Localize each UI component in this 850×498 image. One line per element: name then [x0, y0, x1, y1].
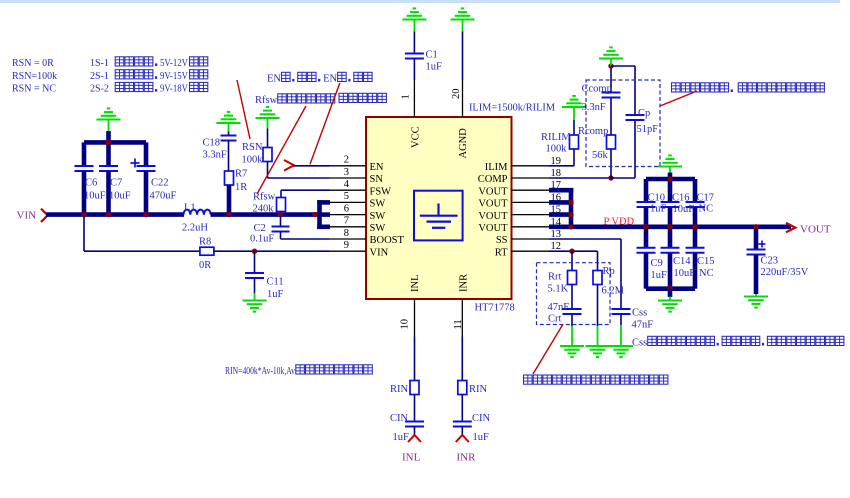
svg-text:C17: C17	[697, 193, 715, 204]
IC U1 left pin names	[370, 162, 405, 258]
svg-text:47nF: 47nF	[632, 320, 654, 331]
svg-text:6: 6	[344, 203, 349, 214]
pin 20 stub	[462, 80, 464, 117]
label RILIM value	[546, 144, 568, 155]
svg-text:Cp: Cp	[638, 108, 650, 119]
capacitor C9	[637, 229, 656, 289]
svg-text:1uF: 1uF	[393, 432, 410, 443]
svg-text:INL: INL	[410, 275, 421, 293]
IC U1 left pin stubs	[329, 166, 366, 251]
svg-text:5: 5	[344, 191, 349, 202]
wire RIN to CIN INR	[461, 395, 463, 422]
ground C23	[744, 294, 768, 308]
svg-text:VIN: VIN	[370, 247, 389, 258]
svg-text:RT: RT	[495, 247, 508, 258]
wire RIN to CIN INL	[414, 395, 416, 422]
svg-text:NC: NC	[699, 204, 714, 215]
resistor R7	[225, 171, 234, 185]
svg-text:0.1uF: 0.1uF	[250, 234, 274, 245]
wire COMP	[549, 177, 611, 179]
callout line comp	[660, 91, 697, 106]
ground C18	[217, 112, 241, 132]
port VOUT label	[800, 224, 831, 236]
wire VIN branch down	[83, 216, 85, 251]
svg-text:RSN: RSN	[242, 142, 263, 153]
annotation release time	[524, 375, 668, 384]
label Rrt value	[548, 284, 569, 295]
svg-text:ILIM=1500k/RILIM: ILIM=1500k/RILIM	[469, 103, 556, 114]
svg-text:7: 7	[344, 216, 349, 227]
wire Rrt to Crt	[571, 285, 573, 310]
annotation RSN=100k	[12, 71, 57, 82]
pin 11 stub	[461, 299, 463, 337]
label R7 value	[235, 182, 247, 193]
junction dots VOUT bus	[568, 200, 573, 230]
svg-text:C22: C22	[151, 178, 169, 189]
svg-text:C18: C18	[203, 138, 221, 149]
svg-text:VCC: VCC	[411, 126, 422, 148]
svg-text:1S-1: 1S-1	[90, 58, 109, 69]
label C17 value	[699, 204, 714, 215]
annotation 2S-2 row	[90, 82, 208, 94]
wire cap bank top bus	[84, 140, 146, 145]
capacitor Css	[612, 309, 631, 314]
label Css	[632, 308, 647, 319]
IC U1 thermal pad box	[414, 191, 463, 241]
svg-text:NC: NC	[699, 268, 714, 279]
ground Ccomp	[599, 47, 623, 66]
svg-text:Rrt: Rrt	[548, 272, 562, 283]
svg-text:3: 3	[344, 167, 349, 178]
annotation comp stability	[672, 83, 825, 92]
svg-text:3.3nF: 3.3nF	[203, 150, 227, 161]
svg-text:10uF: 10uF	[109, 191, 131, 202]
label CIN INL	[390, 413, 409, 424]
svg-text:C9: C9	[651, 258, 663, 269]
IC U1 designator HT71778	[475, 303, 515, 314]
label Rcomp	[578, 126, 608, 137]
IC U1 right pin stubs	[512, 166, 550, 251]
label Cp	[638, 108, 650, 119]
svg-text:2S-2: 2S-2	[90, 84, 109, 95]
svg-text:SW: SW	[370, 223, 386, 234]
label Ccomp value	[582, 102, 606, 113]
svg-text:10: 10	[400, 319, 411, 330]
sheet border top line	[0, 0, 840, 3]
capacitor Ccomp	[602, 66, 621, 135]
wire R8 to pin 9	[214, 250, 329, 252]
svg-text:240k: 240k	[253, 204, 275, 215]
svg-text:FSW: FSW	[370, 186, 392, 197]
capacitor C15	[686, 229, 705, 289]
wire Rp bottom	[597, 285, 599, 327]
svg-text:C15: C15	[697, 256, 715, 267]
pin number 20	[451, 89, 462, 100]
label C1	[426, 50, 438, 61]
label Crt value	[548, 302, 570, 313]
label Cp value	[637, 124, 659, 135]
svg-text:VOUT: VOUT	[478, 199, 508, 210]
label Rfsw value	[253, 204, 275, 215]
pin 1 stub	[413, 80, 415, 117]
svg-text:Css: Css	[632, 308, 647, 319]
pin 10 stub	[414, 299, 416, 337]
label CIN value INL	[393, 432, 410, 443]
svg-text:9: 9	[344, 240, 349, 251]
IC U1 left pin numbers 2-9	[344, 155, 350, 251]
label C10 value	[650, 204, 667, 215]
capacitor C22 plus sign	[131, 159, 140, 168]
label C23	[761, 256, 779, 267]
resistor RIN INR	[458, 381, 467, 395]
port VIN label	[17, 210, 37, 222]
svg-text:1uF: 1uF	[650, 204, 667, 215]
svg-text:Rfsw: Rfsw	[255, 95, 278, 106]
port INR label	[457, 452, 477, 464]
resistor RILIM	[570, 135, 579, 149]
svg-text:Rfsw: Rfsw	[253, 192, 276, 203]
svg-text:RSN = 0R: RSN = 0R	[12, 58, 54, 69]
capacitor C11	[245, 251, 264, 293]
ground Rp	[586, 326, 610, 357]
svg-text:VOUT: VOUT	[478, 186, 508, 197]
annotation 2S-1 row	[90, 70, 208, 82]
wire Cp branch	[611, 66, 635, 178]
svg-text:VOUT: VOUT	[800, 224, 831, 236]
capacitor C23	[747, 229, 766, 294]
label RIN INL	[390, 384, 409, 395]
svg-text:4: 4	[344, 179, 350, 190]
svg-text:1: 1	[401, 94, 412, 99]
wire RT	[549, 250, 598, 252]
junction dots rail out caps	[643, 176, 697, 229]
svg-text:VIN: VIN	[17, 210, 37, 222]
IC U1 pin name VCC	[411, 126, 422, 148]
wire SS	[549, 239, 621, 309]
svg-text:100k: 100k	[546, 144, 568, 155]
capacitor C6	[75, 142, 94, 215]
ground C11	[243, 293, 267, 312]
resistor RIN INL	[410, 381, 419, 395]
junction dot C23	[753, 224, 758, 229]
label C18 value	[203, 150, 227, 161]
svg-text:INL: INL	[402, 452, 421, 464]
svg-text:1uF: 1uF	[473, 432, 490, 443]
svg-text:56k: 56k	[592, 150, 609, 161]
label C7 value	[109, 191, 131, 202]
label C9	[651, 258, 663, 269]
svg-text:CIN: CIN	[390, 413, 409, 424]
label C11 value	[267, 289, 284, 300]
label C16	[672, 193, 690, 204]
label Rcomp value	[592, 150, 609, 161]
ground out caps top	[658, 155, 682, 173]
svg-text:INR: INR	[457, 452, 477, 464]
label Rp value	[602, 286, 625, 297]
annotation see datasheet	[339, 93, 386, 102]
ground out caps bottom	[658, 297, 682, 312]
label RILIM	[541, 132, 571, 143]
label C18	[203, 138, 221, 149]
svg-text:Rp: Rp	[603, 266, 615, 277]
wire comp chain bottom	[610, 149, 612, 178]
wire R7 to rail	[227, 185, 232, 215]
svg-text:VOUT: VOUT	[478, 223, 508, 234]
svg-text:2.2uH: 2.2uH	[182, 223, 208, 234]
label C15 value	[699, 268, 714, 279]
label R8 value	[199, 260, 211, 271]
label RSN value	[242, 155, 264, 166]
IC U1 pin name INR	[458, 274, 469, 292]
ground RSN	[256, 107, 280, 129]
net label P VDD	[604, 217, 635, 228]
svg-text:C10: C10	[648, 193, 666, 204]
svg-text:VOUT: VOUT	[478, 211, 508, 222]
pin number 10	[400, 319, 411, 330]
capacitor C22	[137, 142, 156, 215]
label 2.2uH	[182, 223, 208, 234]
svg-text:Css: Css	[632, 338, 647, 349]
wire CIN to port INR	[461, 427, 463, 436]
label C9 value	[651, 270, 668, 281]
svg-text:1uF: 1uF	[651, 270, 668, 281]
junction dots VIN rail caps	[81, 140, 148, 218]
svg-text:EN: EN	[267, 74, 281, 85]
capacitor C18	[221, 132, 237, 172]
capacitor CIN INR	[453, 422, 472, 427]
ground cap bank	[97, 108, 121, 131]
callout line RSN	[237, 80, 250, 139]
svg-text:P VDD: P VDD	[604, 217, 635, 228]
wire out cap bottom bus	[646, 286, 695, 291]
comp network dashed box	[586, 80, 660, 167]
IC U1 right pin names	[478, 162, 508, 258]
wire VIN rail left	[46, 212, 184, 217]
svg-text:2S-1: 2S-1	[90, 71, 109, 82]
svg-text:10uF: 10uF	[674, 268, 696, 279]
label CIN value INR	[473, 432, 490, 443]
label C2 value	[250, 234, 274, 245]
wire Rp top	[597, 251, 599, 270]
svg-text:RIN: RIN	[469, 384, 488, 395]
svg-text:RIN: RIN	[390, 384, 409, 395]
wire EN	[293, 165, 329, 167]
junction dot R7 rail	[226, 212, 231, 217]
label C11	[267, 277, 284, 288]
capacitor C7	[99, 142, 118, 215]
svg-text:1uF: 1uF	[267, 289, 284, 300]
resistor RSN	[263, 148, 272, 162]
capacitor Crt	[563, 309, 582, 314]
port INL arrow	[408, 435, 421, 442]
svg-text:9V-18V: 9V-18V	[160, 84, 189, 95]
label R7	[235, 169, 247, 180]
label C14 value	[674, 268, 696, 279]
svg-text:SW: SW	[370, 211, 386, 222]
label C6 value	[84, 191, 106, 202]
wire SW bus vertical	[317, 200, 322, 229]
resistor Rrt	[568, 271, 577, 285]
svg-text:Crt: Crt	[548, 314, 562, 325]
annotation 1S-1 row	[90, 57, 208, 69]
wire INR input	[461, 337, 463, 381]
ground AGND	[451, 8, 475, 31]
svg-text:EN: EN	[323, 74, 337, 85]
wire RSN top	[267, 129, 269, 148]
op-amp U1 HT71778 IC body	[366, 117, 512, 299]
label C1 value	[426, 62, 443, 73]
svg-text:51pF: 51pF	[637, 124, 659, 135]
label C16 value	[673, 204, 695, 215]
label C22 value	[150, 191, 177, 202]
wire CIN to port INL	[414, 427, 416, 436]
wire INL input	[414, 337, 416, 381]
wire P VDD rail	[549, 225, 791, 230]
callout line EN	[310, 83, 340, 164]
wire cap bank ground stem	[106, 131, 111, 142]
label C17	[697, 193, 715, 204]
svg-text:10uF: 10uF	[673, 204, 695, 215]
junction dot Rfsw rail	[278, 212, 283, 217]
label C2	[254, 223, 266, 234]
label RSN	[242, 142, 263, 153]
wire FSW	[281, 189, 329, 191]
junction dot RT	[569, 249, 574, 254]
annotation RSN=0R	[12, 58, 54, 69]
wire RSN to SN	[268, 162, 330, 179]
junction dot comp top	[608, 63, 613, 68]
svg-text:0R: 0R	[199, 260, 211, 271]
inductor L1	[184, 210, 211, 215]
ground RILIM	[562, 96, 586, 120]
svg-text:EN: EN	[370, 162, 384, 173]
wire BOOST	[281, 238, 330, 240]
label Crt	[548, 314, 562, 325]
wire out cap top bus	[646, 177, 695, 182]
svg-text:C6: C6	[85, 178, 97, 189]
label Css value	[632, 320, 654, 331]
svg-text:C1: C1	[426, 50, 438, 61]
resistor Rfsw	[277, 198, 286, 212]
svg-text:100k: 100k	[242, 155, 264, 166]
svg-text:20: 20	[451, 89, 462, 100]
label C6	[85, 178, 97, 189]
node EN chevron	[284, 160, 294, 171]
pin number 1	[401, 94, 412, 99]
svg-text:INR: INR	[458, 274, 469, 292]
label C23 value	[761, 267, 809, 278]
pin number 11	[453, 319, 464, 329]
svg-text:R7: R7	[235, 169, 247, 180]
wire FSW down	[280, 190, 282, 197]
svg-text:C2: C2	[254, 223, 266, 234]
svg-text:BOOST: BOOST	[370, 235, 405, 246]
svg-text:RILIM: RILIM	[541, 132, 571, 143]
port VOUT arrow	[786, 223, 795, 232]
label Ccomp	[582, 84, 612, 95]
svg-text:5.1K: 5.1K	[548, 284, 569, 295]
port INR arrow	[456, 435, 469, 442]
svg-text:RIN=400k*Av-10k,Av: RIN=400k*Av-10k,Av	[225, 366, 296, 377]
svg-text:5V-12V: 5V-12V	[160, 58, 189, 69]
annotation EN function	[267, 72, 372, 84]
wire Rrt top	[571, 251, 573, 270]
resistor Rp	[593, 271, 602, 285]
wire Rfsw to rail	[280, 212, 282, 216]
wire bottom bus gnd stub	[668, 289, 673, 297]
label C15	[697, 256, 715, 267]
label L1	[184, 203, 196, 214]
svg-text:6.2M: 6.2M	[602, 286, 625, 297]
wire VOUT bus stubs	[549, 190, 573, 214]
resistor R8	[200, 247, 214, 255]
capacitor CIN INL	[405, 422, 424, 427]
svg-text:SS: SS	[496, 235, 508, 246]
label Rrt	[548, 272, 562, 283]
svg-text:C7: C7	[110, 178, 122, 189]
annotation RSN=NC	[12, 84, 56, 95]
svg-text:CIN: CIN	[472, 413, 491, 424]
svg-text:47nF: 47nF	[548, 302, 570, 313]
annotation Rfsw function	[255, 94, 335, 106]
wire Css bottom	[620, 315, 622, 326]
svg-text:470uF: 470uF	[150, 191, 177, 202]
junction dot bottom bus	[667, 286, 672, 291]
callout line Rfsw	[257, 106, 306, 194]
port VIN arrow	[41, 209, 48, 222]
label R8	[199, 237, 211, 248]
svg-text:ILIM: ILIM	[485, 162, 508, 173]
svg-text:C23: C23	[761, 256, 779, 267]
IC U1 pin name AGND	[458, 128, 469, 159]
junction dot SW rail	[312, 212, 317, 217]
rt network dashed box	[537, 263, 611, 325]
svg-text:L1: L1	[184, 203, 196, 214]
svg-text:C14: C14	[673, 256, 691, 267]
capacitor C1	[405, 32, 424, 81]
capacitor Cp	[626, 115, 645, 120]
svg-text:1R: 1R	[235, 182, 247, 193]
svg-text:1uF: 1uF	[426, 62, 443, 73]
wire Crt bottom	[571, 315, 573, 327]
svg-text:SW: SW	[370, 199, 386, 210]
svg-text:Rcomp: Rcomp	[578, 126, 608, 137]
junction dot COMP bottom	[608, 175, 613, 180]
svg-text:R8: R8	[199, 237, 211, 248]
capacitor C10	[637, 179, 656, 229]
label CIN INR	[472, 413, 491, 424]
svg-text:C11: C11	[267, 277, 284, 288]
junction dot C11 tap	[252, 249, 257, 254]
capacitor C14	[661, 229, 680, 289]
svg-text:C16: C16	[672, 193, 690, 204]
capacitor C2	[272, 216, 290, 239]
wire AGND	[462, 32, 464, 81]
svg-text:3.3nF: 3.3nF	[582, 102, 606, 113]
resistor Rcomp	[607, 135, 616, 149]
wire out cap gnd stub	[668, 173, 673, 180]
svg-text:HT71778: HT71778	[475, 303, 515, 314]
label C7	[110, 178, 122, 189]
wire VOUT bus vertical	[569, 188, 574, 229]
label RIN INR	[469, 384, 488, 395]
IC U1 thermal pad ground symbol	[420, 204, 458, 228]
label Rp	[603, 266, 615, 277]
label ILIM formula	[469, 103, 556, 114]
svg-text:RSN=100k: RSN=100k	[12, 71, 57, 82]
svg-text:220uF/35V: 220uF/35V	[761, 267, 809, 278]
svg-text:COMP: COMP	[478, 174, 508, 185]
